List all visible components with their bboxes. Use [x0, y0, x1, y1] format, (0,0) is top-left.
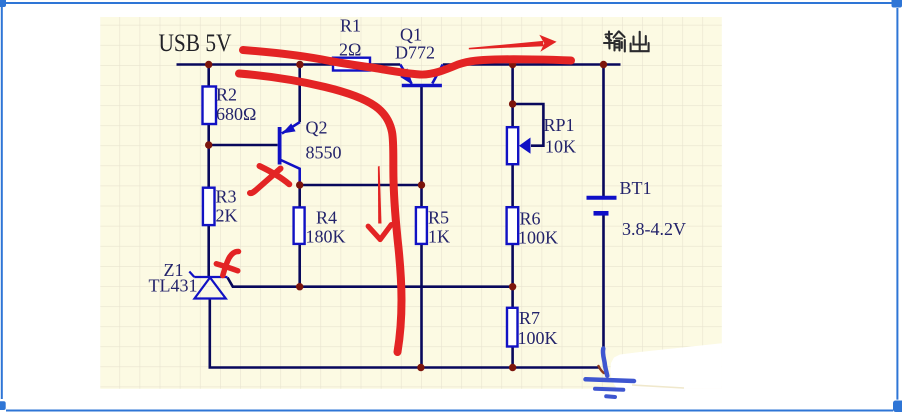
- node dot bottom rail R5: [417, 364, 424, 371]
- svg-text:100K: 100K: [518, 228, 558, 248]
- svg-text:10K: 10K: [545, 137, 576, 157]
- svg-text:680Ω: 680Ω: [216, 104, 256, 124]
- resistor R6: [507, 207, 519, 244]
- wire RP1 R6 R7 branch: [511, 65, 514, 368]
- maroon scribble at rail end: [599, 366, 605, 373]
- svg-text:R1: R1: [340, 16, 361, 36]
- wire R4 branch: [298, 185, 301, 287]
- TL431 Z1 symbol: [189, 272, 227, 299]
- wire mid junction horizontal: [300, 184, 422, 187]
- red pen long top stroke: [243, 50, 571, 75]
- svg-text:RP1: RP1: [544, 115, 575, 135]
- sheet torn white cutout bottom-right: [610, 343, 722, 389]
- resistor R7: [507, 308, 518, 347]
- selection handle top-left: [0, 0, 6, 7]
- wire Q1 base / R5 branch: [420, 87, 423, 368]
- potentiometer RP1 wiper arrow: [519, 138, 531, 154]
- resistor R4: [294, 207, 305, 244]
- transistor Q2 8550: [280, 122, 300, 185]
- wire Q2 emitter vertical: [298, 65, 301, 123]
- wire top rail left segment: [177, 63, 401, 66]
- svg-text:2Ω: 2Ω: [339, 40, 361, 60]
- svg-text:R6: R6: [520, 209, 541, 229]
- svg-text:R2: R2: [216, 85, 237, 105]
- svg-text:D772: D772: [395, 43, 435, 63]
- node dot rail-left branch: [205, 61, 212, 68]
- transistor Q1 D772: [400, 65, 442, 86]
- svg-text:R5: R5: [428, 208, 449, 228]
- svg-text:100K: 100K: [518, 328, 558, 348]
- svg-text:BT1: BT1: [620, 178, 652, 198]
- svg-text:R3: R3: [216, 187, 237, 207]
- resistor R5: [416, 207, 427, 244]
- svg-text:TL431: TL431: [149, 276, 198, 296]
- node dot RP1 top loop: [509, 100, 516, 107]
- svg-text:1K: 1K: [428, 227, 450, 247]
- node dot base tee: [205, 141, 212, 148]
- wire battery bottom: [602, 216, 605, 351]
- wire bottom rail: [210, 299, 599, 368]
- battery BT1 plates: [587, 196, 617, 200]
- svg-text:R4: R4: [316, 208, 337, 228]
- red X mark at Q2 collector: [260, 166, 290, 184]
- svg-text:8550: 8550: [306, 143, 342, 163]
- svg-text:R7: R7: [519, 308, 540, 328]
- schematic sheet background: [100, 17, 722, 389]
- selection handle bottom-right: [893, 401, 902, 412]
- node dot collector junction: [296, 181, 303, 188]
- wire Z1 ref to divider: [228, 278, 513, 287]
- selection frame right line: [896, 8, 898, 400]
- node dot bottom rail R7: [509, 364, 516, 371]
- node dot R4 bottom: [296, 283, 303, 290]
- resistor R2: [203, 87, 217, 125]
- selection handle bottom-left: [0, 401, 6, 410]
- selection frame bottom line: [6, 410, 893, 412]
- net label shuchu (output) drawn glyphs: [604, 32, 649, 52]
- resistor R3: [203, 188, 215, 225]
- wire left branch R2/R3: [207, 65, 210, 278]
- node dot rail-RP1 branch: [509, 61, 516, 68]
- node dot R6-R7 junction: [509, 283, 516, 290]
- wire Q2 base: [209, 144, 278, 147]
- selection handle top-right: [892, 0, 902, 8]
- node dot Q1 base junction: [418, 181, 425, 188]
- svg-text:Q2: Q2: [306, 118, 328, 138]
- node dot rail-battery: [600, 61, 607, 68]
- red straight arrow middle: [378, 166, 382, 224]
- red X mark at Z1: [223, 251, 239, 275]
- wire RP1 wiper loop: [513, 104, 544, 146]
- svg-text:Q1: Q1: [400, 25, 422, 45]
- potentiometer RP1 body: [507, 127, 518, 164]
- red pen long curve down middle: [239, 74, 402, 353]
- red arrow top right: [469, 41, 544, 50]
- resistor R1: [333, 58, 370, 71]
- svg-text:180K: 180K: [306, 227, 346, 247]
- wire top rail right segment: [443, 63, 621, 66]
- selection frame left line: [1, 7, 3, 399]
- svg-text:3.8-4.2V: 3.8-4.2V: [622, 219, 686, 239]
- svg-text:2K: 2K: [216, 206, 238, 226]
- torn edge tan streak: [632, 385, 684, 388]
- selection frame top line: [5, 2, 893, 4]
- wire battery top: [602, 65, 605, 197]
- svg-text:USB 5V: USB 5V: [159, 30, 232, 57]
- ground symbol hand-drawn: [586, 349, 635, 398]
- node dot rail-emitter branch: [296, 61, 303, 68]
